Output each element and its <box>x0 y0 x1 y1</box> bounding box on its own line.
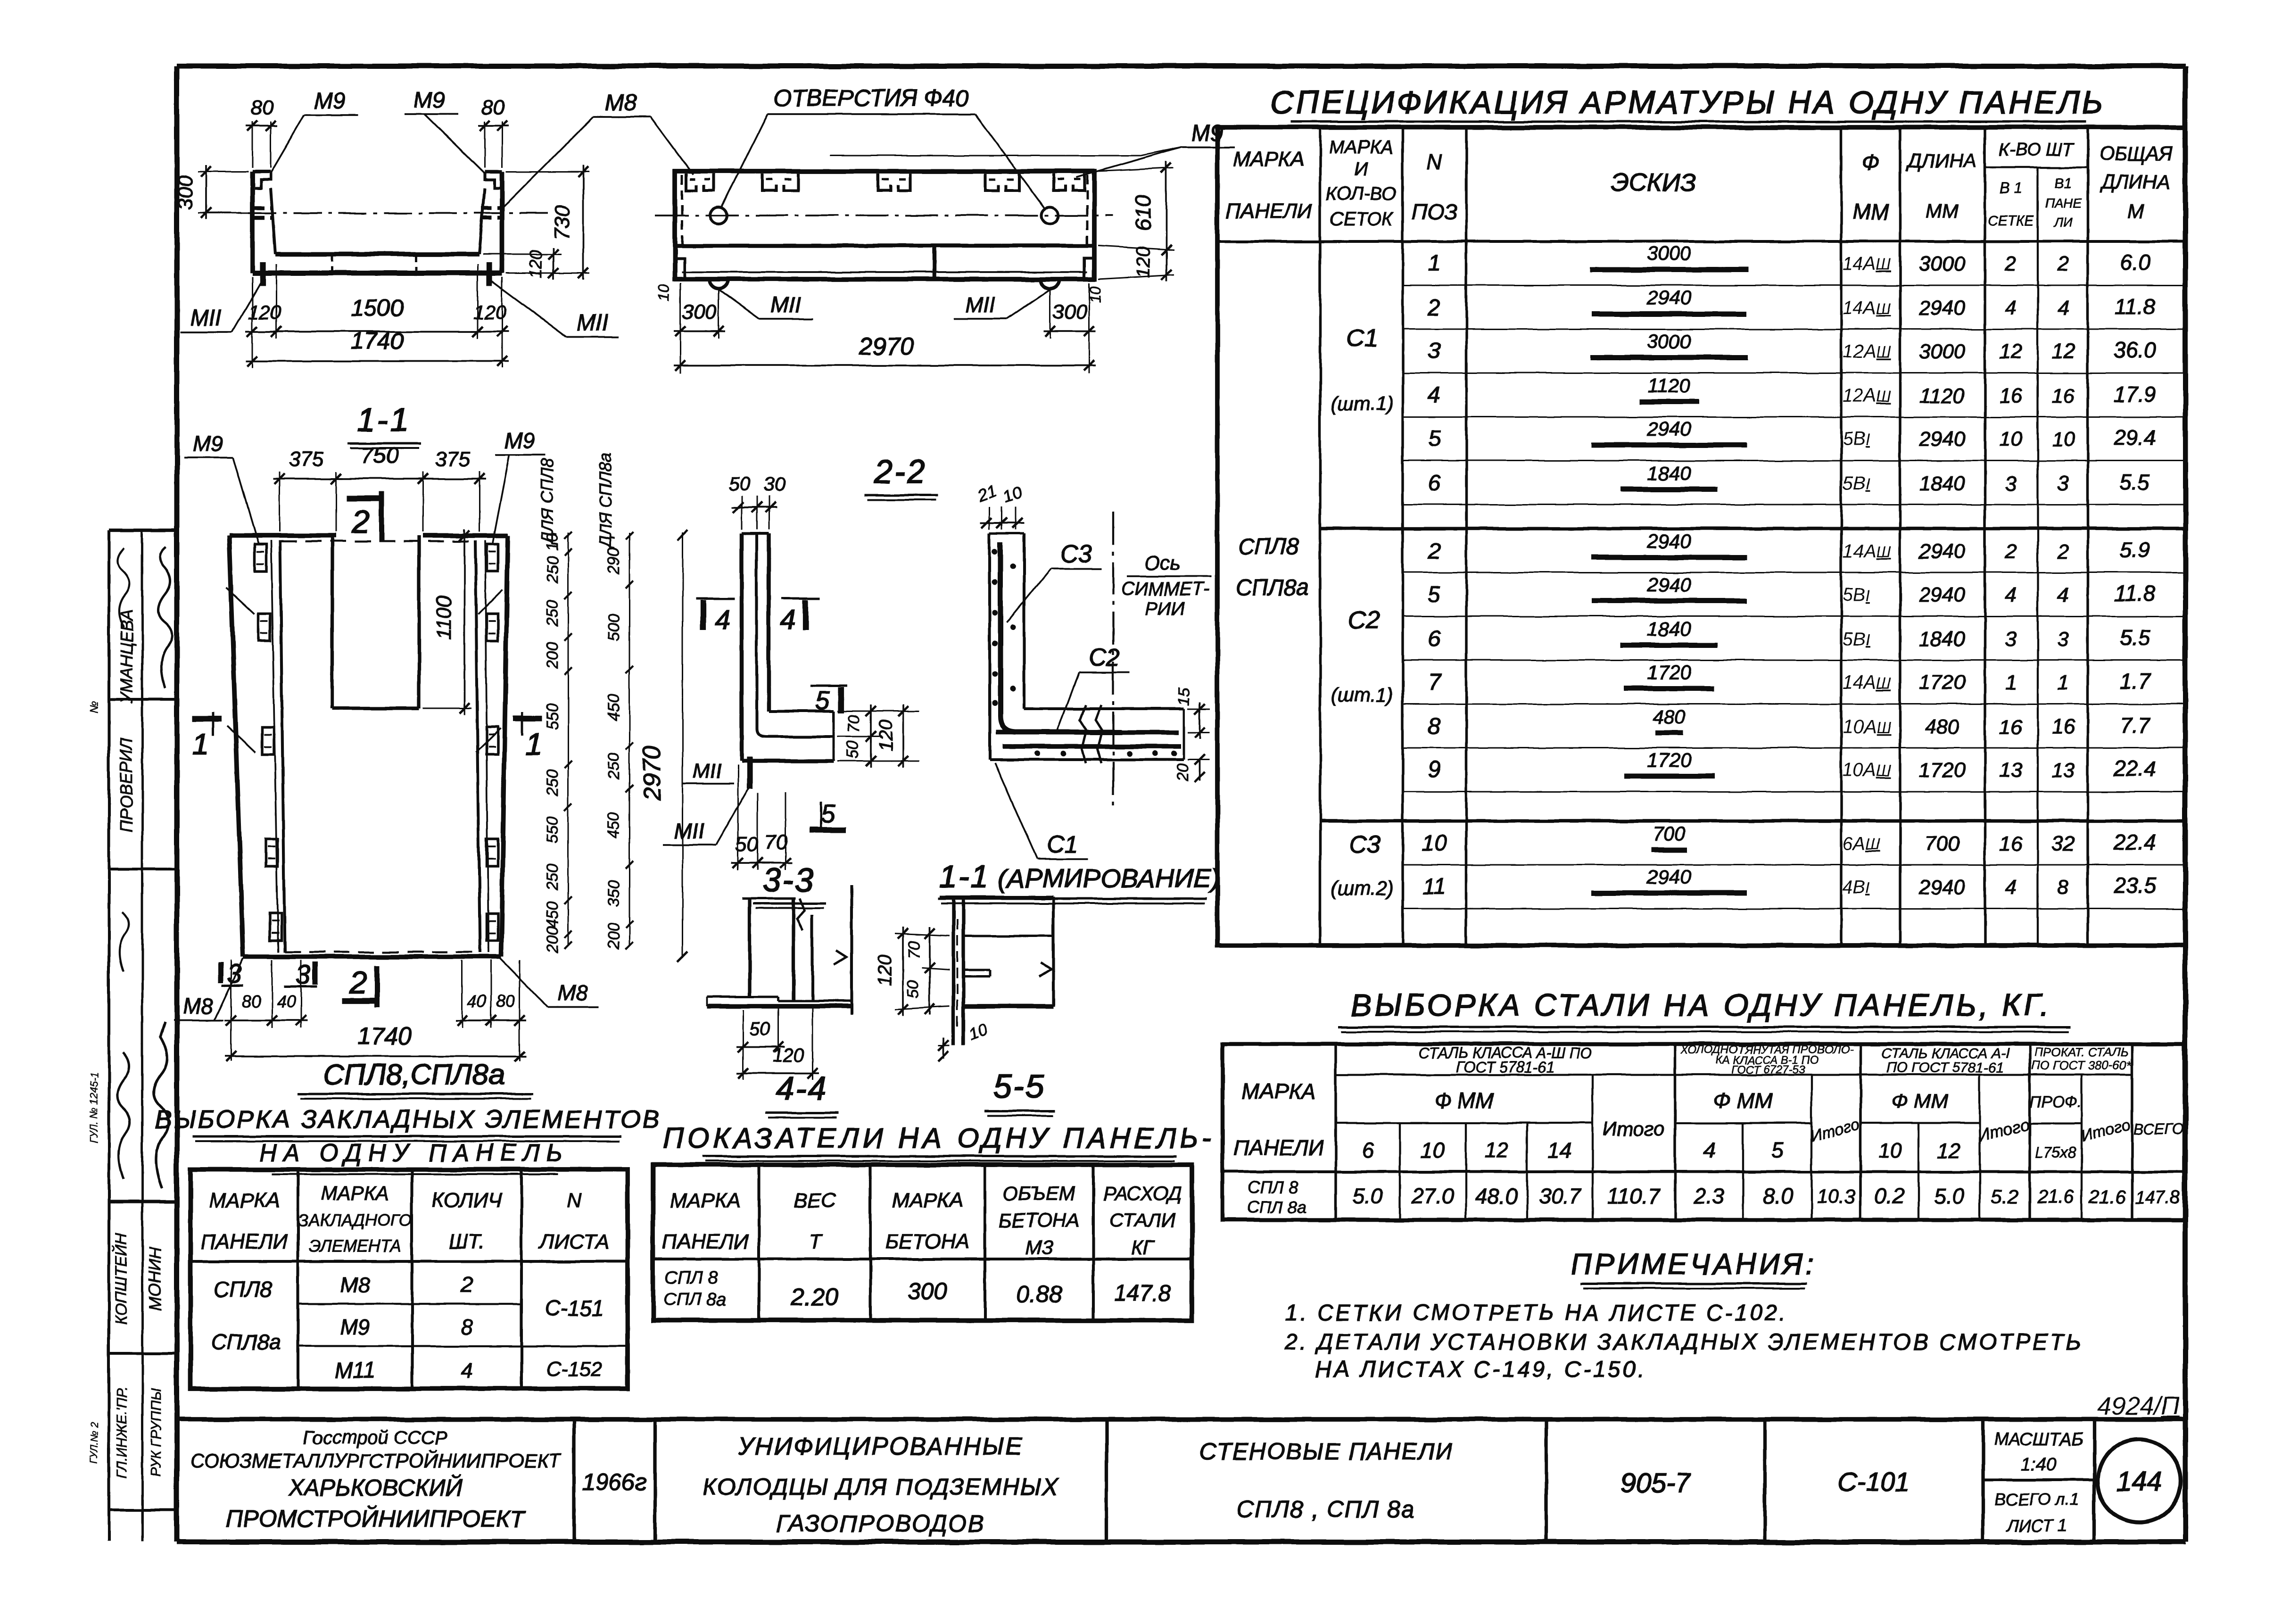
svg-text:5: 5 <box>1428 426 1441 451</box>
svg-text:СПЛ 8: СПЛ 8 <box>665 1268 718 1288</box>
svg-text:РУК ГРУППЫ: РУК ГРУППЫ <box>149 1388 164 1477</box>
svg-text:4924/П: 4924/П <box>2097 1392 2180 1420</box>
svg-text:ПАНЕЛИ: ПАНЕЛИ <box>662 1230 749 1253</box>
svg-text:10: 10 <box>655 284 672 301</box>
svg-text:10: 10 <box>1421 1138 1445 1162</box>
svg-text:L75x8: L75x8 <box>2035 1144 2076 1161</box>
svg-text:N: N <box>1426 150 1442 174</box>
svg-text:Итого: Итого <box>1603 1118 1665 1140</box>
svg-text:ПРОКАТ. СТАЛЬ: ПРОКАТ. СТАЛЬ <box>2034 1045 2128 1059</box>
svg-text:50: 50 <box>750 1019 771 1040</box>
svg-text:11: 11 <box>1422 874 1446 899</box>
svg-text:48.0: 48.0 <box>1475 1184 1518 1208</box>
svg-text:29.4: 29.4 <box>2113 425 2156 450</box>
svg-text:5: 5 <box>821 800 835 828</box>
svg-text:36.0: 36.0 <box>2114 338 2156 362</box>
svg-text:250: 250 <box>544 556 562 584</box>
svg-text:МII: МII <box>674 819 704 843</box>
svg-text:2.20: 2.20 <box>790 1284 838 1311</box>
svg-text:2940: 2940 <box>1918 297 1965 320</box>
svg-text:1740: 1740 <box>357 1023 412 1050</box>
svg-text:БЕТОНА: БЕТОНА <box>999 1209 1079 1231</box>
svg-text:27.0: 27.0 <box>1411 1184 1454 1208</box>
svg-text:12: 12 <box>1484 1138 1508 1162</box>
svg-text:5ВI: 5ВI <box>1843 629 1870 649</box>
svg-text:Госстрой СССР: Госстрой СССР <box>303 1427 447 1448</box>
svg-text:15: 15 <box>1175 688 1193 706</box>
svg-text:ЗАКЛАДНОГО: ЗАКЛАДНОГО <box>298 1210 412 1230</box>
svg-text:ЭСКИЗ: ЭСКИЗ <box>1611 168 1696 197</box>
svg-text:350: 350 <box>605 880 623 907</box>
svg-text:4: 4 <box>715 605 730 635</box>
svg-text:7.7: 7.7 <box>2120 713 2150 737</box>
svg-text:8: 8 <box>461 1315 473 1339</box>
svg-text:300: 300 <box>1052 300 1087 323</box>
svg-text:1120: 1120 <box>1648 374 1691 397</box>
svg-text:М8: М8 <box>340 1272 370 1297</box>
svg-text:4: 4 <box>780 605 795 635</box>
svg-text:2. ДЕТАЛИ УСТАНОВКИ ЗАКЛАД: 2. ДЕТАЛИ УСТАНОВКИ ЗАКЛАДНЫХ ЭЛЕМЕНТОВ … <box>1284 1330 2083 1355</box>
svg-text:1720: 1720 <box>1919 759 1965 782</box>
svg-text:13: 13 <box>2052 759 2075 782</box>
svg-text:ЛИСТА: ЛИСТА <box>538 1230 609 1253</box>
svg-text:СЕТОК: СЕТОК <box>1330 209 1394 230</box>
svg-text:СПЛ 8: СПЛ 8 <box>1248 1177 1298 1197</box>
svg-text:ГЛ.ИНЖЕ.'ПР.: ГЛ.ИНЖЕ.'ПР. <box>114 1387 130 1478</box>
svg-text:СЕТКЕ: СЕТКЕ <box>1988 213 2034 229</box>
svg-text:11.8: 11.8 <box>2115 294 2156 319</box>
svg-text:7: 7 <box>1428 670 1442 695</box>
svg-text:450: 450 <box>605 812 623 839</box>
svg-text:СПЛ8,СПЛ8а: СПЛ8,СПЛ8а <box>323 1059 504 1091</box>
svg-text:(шт.1): (шт.1) <box>1331 392 1393 414</box>
svg-text:17.9: 17.9 <box>2114 382 2156 406</box>
svg-text:40: 40 <box>467 992 486 1011</box>
svg-text:СТАЛИ: СТАЛИ <box>1109 1209 1176 1231</box>
svg-text:1720: 1720 <box>1919 671 1965 694</box>
svg-text:В 1: В 1 <box>2000 180 2022 197</box>
svg-text:2-2: 2-2 <box>873 453 927 490</box>
svg-text:ПОКАЗАТЕЛИ НА ОДНУ ПАНЕЛЬ-: ПОКАЗАТЕЛИ НА ОДНУ ПАНЕЛЬ- <box>663 1122 1215 1154</box>
svg-text:10: 10 <box>1422 831 1447 856</box>
svg-text:М8: М8 <box>558 981 588 1005</box>
svg-text:ЛИ: ЛИ <box>2053 215 2073 229</box>
svg-text:3000: 3000 <box>1919 252 1965 275</box>
svg-text:6АШ: 6АШ <box>1843 833 1881 854</box>
svg-text:730: 730 <box>551 205 574 240</box>
svg-text:С2: С2 <box>1089 644 1120 671</box>
svg-text:147.8: 147.8 <box>2135 1188 2180 1208</box>
svg-text:МII: МII <box>770 292 801 317</box>
svg-text:М9: М9 <box>340 1315 370 1339</box>
svg-text:1:40: 1:40 <box>2021 1455 2056 1475</box>
svg-text:УНИФИЦИРОВАННЫЕ: УНИФИЦИРОВАННЫЕ <box>737 1433 1023 1460</box>
svg-text:Ф ММ: Ф ММ <box>1434 1088 1494 1113</box>
svg-text:ГУЛ. № 1245-1: ГУЛ. № 1245-1 <box>88 1072 100 1143</box>
svg-text:375: 375 <box>289 447 324 471</box>
svg-text:ВЫБОРКА СТАЛИ НА ОДНУ П: ВЫБОРКА СТАЛИ НА ОДНУ ПАНЕЛЬ, КГ. <box>1351 987 2051 1022</box>
svg-text:8.0: 8.0 <box>1762 1184 1793 1208</box>
svg-text:10: 10 <box>1087 286 1104 303</box>
svg-text:5ВI: 5ВI <box>1843 429 1870 449</box>
svg-text:21.6: 21.6 <box>2037 1187 2075 1208</box>
svg-text:2940: 2940 <box>1918 540 1965 563</box>
svg-text:120: 120 <box>526 250 545 278</box>
svg-text:ДЛЯ СПЛ8: ДЛЯ СПЛ8 <box>537 458 557 545</box>
svg-text:БЕТОНА: БЕТОНА <box>885 1230 969 1253</box>
svg-text:2940: 2940 <box>1646 287 1691 309</box>
svg-text:12: 12 <box>1938 1139 1961 1162</box>
svg-text:23.5: 23.5 <box>2113 873 2156 898</box>
svg-text:14АШ: 14АШ <box>1843 541 1891 562</box>
svg-text:1720: 1720 <box>1647 749 1691 771</box>
svg-text:ЭЛЕМЕНТА: ЭЛЕМЕНТА <box>309 1236 402 1256</box>
svg-text:2970: 2970 <box>859 333 914 360</box>
svg-text:ММ: ММ <box>1852 199 1889 224</box>
svg-text:С2: С2 <box>1348 606 1380 634</box>
svg-text:5.2: 5.2 <box>1991 1185 2018 1208</box>
svg-text:ГОСТ 6727-53: ГОСТ 6727-53 <box>1731 1063 1806 1076</box>
svg-text:80: 80 <box>251 96 274 119</box>
svg-text:СПЛ8а: СПЛ8а <box>211 1330 281 1354</box>
svg-text:МАРКА: МАРКА <box>209 1189 280 1212</box>
svg-text:3: 3 <box>1428 339 1441 364</box>
svg-text:200: 200 <box>605 923 623 950</box>
svg-text:16: 16 <box>2000 384 2023 407</box>
svg-text:1840: 1840 <box>1647 618 1691 640</box>
svg-text:СОЮЗМЕТАЛЛУРГСТРОЙНИИПРОЕКТ: СОЮЗМЕТАЛЛУРГСТРОЙНИИПРОЕКТ <box>190 1449 562 1472</box>
svg-text:№: № <box>88 701 100 713</box>
svg-text:10: 10 <box>2052 428 2075 451</box>
svg-text:13: 13 <box>2000 759 2023 782</box>
svg-text:КОПШТЕЙН: КОПШТЕЙН <box>112 1233 130 1325</box>
svg-text:1-1: 1-1 <box>357 401 410 438</box>
svg-text:1: 1 <box>2058 671 2069 694</box>
svg-text:700: 700 <box>1653 822 1686 845</box>
svg-text:50: 50 <box>728 472 751 495</box>
svg-text:ДЛЯ СПЛ8а: ДЛЯ СПЛ8а <box>595 452 615 549</box>
svg-text:3000: 3000 <box>1647 330 1691 352</box>
svg-text:610: 610 <box>1131 195 1155 231</box>
svg-text:ЛИСТ 1: ЛИСТ 1 <box>2006 1516 2067 1535</box>
svg-text:Ф: Ф <box>1861 150 1879 175</box>
svg-text:550: 550 <box>544 817 562 844</box>
svg-text:147.8: 147.8 <box>1114 1281 1171 1306</box>
svg-text:5.0: 5.0 <box>1934 1184 1964 1208</box>
svg-text:12АШ: 12АШ <box>1843 385 1891 406</box>
svg-text:1100: 1100 <box>432 595 455 640</box>
svg-text:4: 4 <box>1703 1138 1715 1162</box>
svg-text:5: 5 <box>1428 582 1441 607</box>
svg-text:16: 16 <box>2000 832 2023 855</box>
svg-text:М3: М3 <box>1025 1236 1053 1259</box>
svg-text:12: 12 <box>2052 340 2075 363</box>
svg-text:2: 2 <box>351 504 370 540</box>
svg-text:50: 50 <box>904 980 922 998</box>
svg-text:6: 6 <box>1362 1138 1374 1162</box>
svg-text:ПАНЕ: ПАНЕ <box>2045 196 2082 210</box>
svg-text:ВЕС: ВЕС <box>794 1189 837 1212</box>
svg-text:С3: С3 <box>1349 831 1381 858</box>
svg-text:4: 4 <box>2005 876 2017 899</box>
svg-text:3: 3 <box>2005 628 2017 651</box>
svg-text:ПРОФ.: ПРОФ. <box>2030 1093 2082 1111</box>
svg-text:3000: 3000 <box>1919 340 1965 363</box>
svg-text:МАРКА: МАРКА <box>1329 137 1394 157</box>
svg-text:ОТВЕРСТИЯ Ф40: ОТВЕРСТИЯ Ф40 <box>774 85 969 111</box>
svg-text:905-7: 905-7 <box>1620 1468 1692 1499</box>
svg-text:375: 375 <box>435 447 470 471</box>
svg-text:120: 120 <box>875 955 895 986</box>
svg-text:14АШ: 14АШ <box>1843 672 1891 693</box>
svg-text:250: 250 <box>605 753 623 780</box>
svg-text:10АШ: 10АШ <box>1843 716 1891 737</box>
svg-text:1.7: 1.7 <box>2120 669 2150 693</box>
svg-text:2940: 2940 <box>1646 866 1691 888</box>
svg-text:21.6: 21.6 <box>2088 1187 2126 1208</box>
svg-text:12: 12 <box>2000 340 2023 363</box>
svg-text:С1: С1 <box>1047 831 1078 858</box>
svg-text:ГАЗОПРОВОДОВ: ГАЗОПРОВОДОВ <box>776 1510 985 1537</box>
svg-text:2: 2 <box>2057 252 2069 275</box>
svg-text:С3: С3 <box>1060 540 1092 568</box>
svg-text:(шт.2): (шт.2) <box>1331 877 1393 899</box>
svg-text:СПЛ8 , СПЛ 8а: СПЛ8 , СПЛ 8а <box>1237 1496 1415 1523</box>
svg-text:М: М <box>2128 200 2144 222</box>
svg-text:200: 200 <box>544 642 562 670</box>
svg-text:30: 30 <box>763 473 785 496</box>
svg-text:50: 50 <box>736 833 759 856</box>
svg-text:120: 120 <box>248 301 281 323</box>
svg-text:30.7: 30.7 <box>1538 1184 1581 1208</box>
svg-text:СПЕЦИФИКАЦИЯ АРМАТУРЫ НА: СПЕЦИФИКАЦИЯ АРМАТУРЫ НА ОДНУ ПАНЕЛЬ <box>1270 84 2105 120</box>
svg-text:3: 3 <box>296 960 310 989</box>
svg-text:8: 8 <box>1428 714 1441 739</box>
svg-text:СПЛ 8а: СПЛ 8а <box>663 1290 727 1309</box>
svg-text:2: 2 <box>2005 252 2017 275</box>
svg-text:450: 450 <box>605 694 623 721</box>
svg-text:6: 6 <box>1428 626 1441 651</box>
svg-text:300: 300 <box>908 1278 947 1304</box>
svg-text:120: 120 <box>876 720 896 752</box>
svg-text:МАРКА: МАРКА <box>1241 1079 1315 1103</box>
svg-text:2: 2 <box>2057 540 2069 563</box>
svg-text:ВСЕГО: ВСЕГО <box>2133 1120 2183 1137</box>
svg-text:1: 1 <box>2005 671 2017 694</box>
svg-text:С-101: С-101 <box>1838 1467 1910 1497</box>
svg-text:ДЛИНА: ДЛИНА <box>1906 149 1977 172</box>
svg-text:80: 80 <box>482 96 505 119</box>
svg-text:СПЛ8а: СПЛ8а <box>1235 575 1309 600</box>
svg-text:3: 3 <box>2005 472 2017 495</box>
svg-text:С-151: С-151 <box>545 1296 604 1320</box>
svg-text:1120: 1120 <box>1920 384 1965 407</box>
svg-text:4: 4 <box>2005 297 2017 320</box>
svg-text:5: 5 <box>815 687 830 715</box>
svg-text:4: 4 <box>461 1358 473 1383</box>
svg-text:ГОСТ 5781-61: ГОСТ 5781-61 <box>1456 1059 1554 1076</box>
svg-text:6.0: 6.0 <box>2120 250 2150 274</box>
svg-text:10: 10 <box>2000 428 2023 451</box>
svg-text:450: 450 <box>544 902 562 928</box>
svg-text:МАРКА: МАРКА <box>670 1189 741 1212</box>
svg-text:10АШ: 10АШ <box>1843 760 1891 780</box>
svg-text:С1: С1 <box>1347 325 1378 352</box>
svg-text:1966г: 1966г <box>582 1469 646 1495</box>
svg-text:1840: 1840 <box>1919 628 1965 651</box>
svg-text:2940: 2940 <box>1918 876 1965 899</box>
svg-text:70: 70 <box>845 715 863 733</box>
svg-text:14: 14 <box>1547 1138 1571 1162</box>
svg-text:Ф ММ: Ф ММ <box>1713 1088 1773 1113</box>
svg-text:ПРОМСТРОЙНИИПРОЕКТ: ПРОМСТРОЙНИИПРОЕКТ <box>226 1506 526 1532</box>
svg-text:1840: 1840 <box>1919 472 1965 495</box>
svg-text:КГ: КГ <box>1131 1236 1155 1259</box>
svg-text:2: 2 <box>2005 540 2017 563</box>
svg-text:120: 120 <box>773 1045 804 1066</box>
svg-text:250: 250 <box>544 770 562 797</box>
svg-text:1500: 1500 <box>351 295 403 321</box>
svg-text:ПО ГОСТ 380-60*: ПО ГОСТ 380-60* <box>2031 1058 2132 1072</box>
svg-text:2940: 2940 <box>1646 573 1691 596</box>
svg-text:УМАНЦЕВА: УМАНЦЕВА <box>117 609 136 704</box>
svg-text:1: 1 <box>526 727 543 761</box>
svg-text:ОБЩАЯ: ОБЩАЯ <box>2099 142 2173 165</box>
svg-text:300: 300 <box>174 175 197 210</box>
svg-text:ВЫБОРКА ЗАКЛАДНЫХ ЭЛЕМЕНТОВ: ВЫБОРКА ЗАКЛАДНЫХ ЭЛЕМЕНТОВ <box>154 1105 661 1134</box>
svg-text:0.2: 0.2 <box>1875 1184 1905 1208</box>
svg-text:20: 20 <box>1174 763 1192 782</box>
svg-text:750: 750 <box>361 443 398 468</box>
svg-text:ХАРЬКОВСКИЙ: ХАРЬКОВСКИЙ <box>288 1475 463 1501</box>
svg-text:500: 500 <box>605 614 623 641</box>
svg-text:4: 4 <box>2058 583 2069 606</box>
svg-text:С-152: С-152 <box>546 1358 603 1381</box>
svg-text:550: 550 <box>544 704 562 730</box>
svg-text:2940: 2940 <box>1646 530 1691 552</box>
svg-text:МОНИН: МОНИН <box>145 1246 165 1311</box>
svg-text:N: N <box>567 1189 582 1212</box>
svg-text:СТЕНОВЫЕ ПАНЕЛИ: СТЕНОВЫЕ ПАНЕЛИ <box>1199 1438 1453 1465</box>
svg-text:(шт.1): (шт.1) <box>1331 684 1393 706</box>
svg-text:М8: М8 <box>605 91 637 116</box>
svg-text:4ВI: 4ВI <box>1843 877 1870 897</box>
svg-text:МАСШТАБ: МАСШТАБ <box>1994 1430 2083 1450</box>
svg-text:КОЛИЧ: КОЛИЧ <box>431 1189 502 1212</box>
svg-text:3000: 3000 <box>1647 242 1691 265</box>
svg-text:Т: Т <box>809 1230 823 1253</box>
svg-text:3-3: 3-3 <box>763 862 815 898</box>
svg-text:110.7: 110.7 <box>1607 1184 1661 1208</box>
svg-text:МII: МII <box>577 310 609 335</box>
svg-text:М8: М8 <box>183 994 213 1019</box>
svg-text:2.3: 2.3 <box>1694 1184 1724 1208</box>
svg-text:В1: В1 <box>2055 175 2072 191</box>
svg-text:2940: 2940 <box>1918 583 1965 606</box>
svg-text:ПРОВЕРИЛ: ПРОВЕРИЛ <box>116 737 136 832</box>
svg-text:250: 250 <box>544 600 562 627</box>
svg-text:4: 4 <box>2005 583 2017 606</box>
svg-text:50: 50 <box>844 741 862 759</box>
svg-text:120: 120 <box>1133 247 1154 278</box>
svg-text:М11: М11 <box>335 1358 375 1383</box>
svg-text:НА ОДНУ ПАНЕЛЬ: НА ОДНУ ПАНЕЛЬ <box>259 1139 569 1167</box>
svg-text:1: 1 <box>192 727 209 761</box>
svg-text:32: 32 <box>2052 832 2075 855</box>
svg-text:8: 8 <box>2058 876 2069 899</box>
svg-text:СПЛ 8а: СПЛ 8а <box>1247 1197 1307 1217</box>
svg-text:14АШ: 14АШ <box>1843 253 1891 274</box>
svg-text:144: 144 <box>2116 1467 2162 1497</box>
svg-text:10: 10 <box>1878 1139 1901 1162</box>
svg-text:СИММЕТ-: СИММЕТ- <box>1121 579 1210 599</box>
svg-text:(АРМИРОВАНИЕ): (АРМИРОВАНИЕ) <box>998 863 1220 893</box>
svg-text:2940: 2940 <box>1918 428 1965 451</box>
svg-text:16: 16 <box>2000 715 2023 738</box>
svg-text:22.4: 22.4 <box>2113 830 2156 854</box>
svg-text:3: 3 <box>2058 628 2069 651</box>
svg-text:И: И <box>1355 159 1368 180</box>
svg-text:КОЛОДЦЫ ДЛЯ ПОДЗЕМНЫХ: КОЛОДЦЫ ДЛЯ ПОДЗЕМНЫХ <box>703 1474 1059 1500</box>
svg-text:9: 9 <box>1428 757 1441 782</box>
svg-text:80: 80 <box>242 992 261 1011</box>
svg-text:2: 2 <box>1428 539 1441 563</box>
svg-text:ПРИМЕЧАНИЯ:: ПРИМЕЧАНИЯ: <box>1571 1248 1816 1281</box>
svg-text:12АШ: 12АШ <box>1843 341 1891 362</box>
svg-text:6: 6 <box>1428 471 1441 496</box>
svg-text:2940: 2940 <box>1646 418 1691 440</box>
svg-text:5.0: 5.0 <box>1353 1184 1383 1208</box>
svg-text:16: 16 <box>2052 384 2075 407</box>
svg-text:4: 4 <box>2058 297 2069 320</box>
svg-text:МАРКА: МАРКА <box>321 1182 389 1204</box>
svg-text:МII: МII <box>965 292 995 317</box>
svg-text:0.88: 0.88 <box>1016 1281 1062 1308</box>
svg-text:2: 2 <box>460 1272 473 1297</box>
svg-text:3: 3 <box>2058 472 2069 495</box>
svg-text:2: 2 <box>1428 295 1441 320</box>
svg-text:М9: М9 <box>193 431 223 456</box>
svg-text:300: 300 <box>682 300 717 323</box>
svg-text:КОЛ-ВО: КОЛ-ВО <box>1326 183 1397 204</box>
svg-text:480: 480 <box>1653 705 1686 728</box>
svg-text:ММ: ММ <box>1926 200 1959 222</box>
svg-text:РАСХОД: РАСХОД <box>1103 1182 1182 1204</box>
svg-text:ДЛИНА: ДЛИНА <box>2100 171 2171 193</box>
svg-text:5ВI: 5ВI <box>1843 473 1870 494</box>
svg-text:ВСЕГО л.1: ВСЕГО л.1 <box>1994 1490 2079 1509</box>
svg-text:10.3: 10.3 <box>1817 1185 1855 1208</box>
svg-text:СТАЛЬ КЛАССА А-I: СТАЛЬ КЛАССА А-I <box>1881 1046 2009 1061</box>
svg-text:ПАНЕЛИ: ПАНЕЛИ <box>1233 1135 1324 1160</box>
svg-text:1720: 1720 <box>1647 661 1691 683</box>
svg-text:200: 200 <box>544 927 562 954</box>
svg-text:5.5: 5.5 <box>2120 470 2150 494</box>
svg-text:250: 250 <box>544 864 562 891</box>
svg-text:М9: М9 <box>414 88 446 113</box>
svg-text:СПЛ8: СПЛ8 <box>214 1277 272 1301</box>
svg-text:11.8: 11.8 <box>2115 581 2156 605</box>
svg-text:К-ВО ШТ: К-ВО ШТ <box>1999 140 2075 160</box>
svg-text:МАРКА: МАРКА <box>1233 148 1305 171</box>
svg-text:ШТ.: ШТ. <box>449 1230 485 1253</box>
svg-text:ОБЪЕМ: ОБЪЕМ <box>1003 1182 1075 1204</box>
svg-text:ПАНЕЛИ: ПАНЕЛИ <box>201 1230 288 1253</box>
svg-text:РИИ: РИИ <box>1145 598 1185 619</box>
svg-text:80: 80 <box>496 992 515 1011</box>
svg-text:14АШ: 14АШ <box>1843 298 1891 318</box>
svg-text:70: 70 <box>905 941 923 959</box>
